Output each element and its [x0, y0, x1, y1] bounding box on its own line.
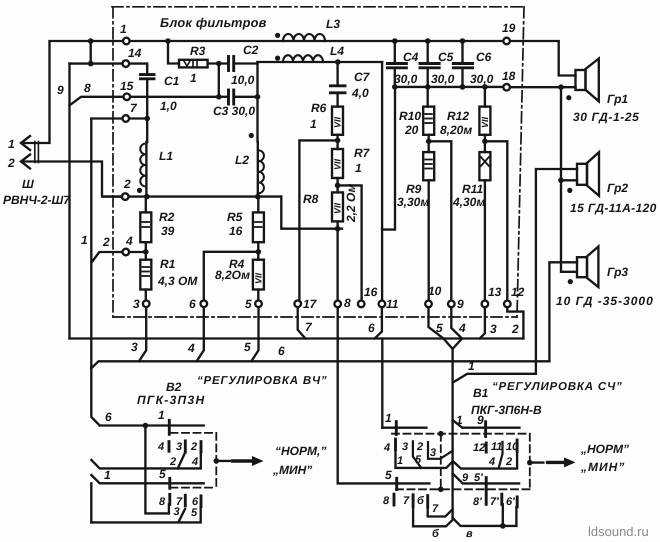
arrow B1 positions — [548, 461, 564, 464]
svg-text:4: 4 — [125, 234, 133, 248]
svg-text:10 ГД -35-3000: 10 ГД -35-3000 — [556, 294, 654, 308]
svg-text:4,3 ОМ: 4,3 ОМ — [157, 274, 198, 288]
wire: central harness vertical — [451, 349, 453, 518]
node: dots B1 link — [438, 431, 444, 437]
node: dot R7/R8 junction, tap right to terminal 16 column — [336, 178, 338, 192]
wire: input 1 net, terminal 1 to L3 to C-tops to terminal 19 to Гр1 top — [22, 41, 123, 143]
node: dot R6/R7 junction — [336, 135, 338, 149]
svg-text:2: 2 — [416, 441, 423, 453]
terminal 3 — [143, 300, 150, 307]
node: dot B2 row1 — [143, 423, 149, 429]
svg-text:L4: L4 — [330, 44, 344, 58]
terminal 4 — [123, 249, 130, 256]
svg-text:39: 39 — [161, 224, 175, 238]
arrow B2 positions — [233, 459, 252, 462]
svg-text:Блок фильтров: Блок фильтров — [160, 15, 267, 30]
svg-text:R11: R11 — [462, 182, 483, 196]
svg-text:5: 5 — [436, 321, 443, 335]
wire: harness funnel to central vertical — [443, 339, 462, 349]
svg-text:16: 16 — [364, 285, 378, 299]
svg-text:8: 8 — [159, 496, 166, 508]
node: dot R10 bottom, tap to terminal 9 column — [428, 135, 430, 152]
wire: terminal 2 / L1-L2 common bus — [104, 195, 122, 197]
svg-text:8,20м: 8,20м — [440, 123, 472, 137]
svg-text:2: 2 — [169, 456, 176, 468]
svg-text:R5: R5 — [227, 210, 243, 224]
svg-text:R9: R9 — [406, 182, 422, 196]
svg-text:1: 1 — [104, 468, 111, 482]
node: dot C3 joins column — [255, 94, 261, 100]
svg-text:8: 8 — [383, 495, 390, 507]
resistor R6 — [336, 93, 338, 107]
wire: B2 left vertical bottom — [90, 483, 92, 522]
svg-text:5': 5' — [474, 472, 483, 484]
svg-text:R12: R12 — [447, 109, 469, 123]
wire: R3 left drop — [168, 41, 179, 64]
svg-text:8: 8 — [344, 296, 351, 310]
wire: drop from terminal-1 wire to terminal-14 wire — [90, 41, 92, 64]
resistor R1 — [140, 260, 151, 290]
wire: L4 right to C7 node and across to terminal 11 column — [283, 61, 323, 63]
wire: B2 left feed vertical with merges — [91, 368, 99, 425]
node: dot R2/R1 junction — [143, 249, 149, 255]
svg-text:1,0: 1,0 — [160, 99, 177, 113]
switch bar B2 pin5 row — [168, 478, 171, 488]
svg-text:1: 1 — [81, 233, 88, 247]
node: dot L1 bottom — [144, 194, 150, 200]
svg-text:2: 2 — [505, 456, 512, 468]
B1 bottom-right row в — [453, 507, 517, 526]
wire: below terminal 5 merge to bus2 — [251, 307, 258, 361]
capacitor C7 — [336, 62, 338, 85]
svg-text:11: 11 — [386, 297, 399, 311]
svg-text:VII: VII — [480, 116, 490, 128]
connector arrow 2 — [21, 155, 30, 169]
wire: L1 junction to R2 — [145, 197, 147, 213]
wire: tap left to terminal 17 column — [299, 140, 337, 300]
wire: terminal 4 line — [92, 252, 123, 262]
terminal 19 — [503, 38, 510, 45]
svg-text:12: 12 — [511, 285, 525, 299]
terminal 1 — [123, 38, 130, 45]
svg-text:3: 3 — [174, 506, 180, 518]
terminal 13 — [482, 301, 489, 308]
connector cable marker bars — [35, 142, 39, 163]
svg-text:2: 2 — [511, 322, 519, 336]
svg-text:9: 9 — [477, 413, 484, 427]
svg-text:5: 5 — [191, 507, 198, 519]
svg-text:C2: C2 — [243, 43, 259, 57]
node: dot L4 out / C7 top — [335, 59, 341, 65]
wire: B1 inner bucket — [428, 507, 453, 517]
B1 bottom-left group bars 8,7,б — [393, 494, 396, 505]
terminal 17 — [294, 300, 301, 307]
svg-text:7: 7 — [432, 503, 439, 515]
svg-text:2,2 Ом: 2,2 Ом — [344, 184, 358, 223]
node: dot R12 bottom, tap to terminal 12 column — [484, 135, 486, 152]
svg-text:б: б — [417, 495, 425, 507]
capacitor C6 — [453, 64, 472, 68]
svg-text:3: 3 — [402, 441, 408, 453]
svg-text:1: 1 — [190, 71, 197, 85]
wire: terminal 14 net, left to x=69.5 vertical, right to C1 — [70, 62, 123, 64]
terminal 12 — [504, 301, 511, 308]
svg-text:30,0: 30,0 — [470, 72, 494, 86]
svg-text:3: 3 — [430, 447, 436, 459]
node: dot R3 out — [216, 61, 222, 67]
resistor R3 — [179, 60, 208, 68]
terminal 11 — [379, 301, 386, 308]
terminal 16 — [358, 301, 365, 308]
svg-text:C3 30,0: C3 30,0 — [213, 104, 255, 118]
svg-text:16: 16 — [229, 224, 243, 238]
wire: terminal 6 column up and over to R5/R4 junction — [204, 252, 258, 300]
wire: below terminal 12 L to bus1 right end — [507, 307, 523, 338]
capacitor C5 — [420, 64, 439, 68]
svg-text:1: 1 — [310, 117, 317, 131]
svg-text:1: 1 — [120, 22, 127, 36]
node: dot on C3 line — [216, 94, 222, 100]
B1 right contact group — [485, 443, 488, 452]
resistor R11 — [479, 152, 490, 180]
wire: C1 bottom to terminal-15 line — [146, 79, 148, 97]
svg-text:R7: R7 — [354, 146, 371, 160]
svg-text:13: 13 — [488, 285, 502, 299]
switch bar B1 pin5 — [395, 478, 398, 489]
terminal 8 — [334, 301, 341, 308]
wire: below terminal 6 merge to bus2 — [197, 307, 204, 361]
svg-text:C4: C4 — [403, 50, 419, 64]
wire: below terminal 3 merge to bus2 — [139, 307, 146, 361]
svg-text:РВНЧ-2-Ш7: РВНЧ-2-Ш7 — [3, 193, 71, 207]
svg-text:8': 8' — [473, 496, 482, 508]
B2 dashed frame — [171, 433, 217, 488]
svg-text:30 ГД-1-25: 30 ГД-1-25 — [573, 110, 639, 124]
terminal 14 — [123, 60, 130, 67]
svg-text:Гр3: Гр3 — [607, 265, 628, 279]
svg-text:VII: VII — [254, 272, 264, 284]
B2 lower group bars 8,7,6 — [168, 494, 171, 504]
svg-text:12: 12 — [473, 442, 485, 454]
svg-text:15 ГД-11А-120: 15 ГД-11А-120 — [570, 201, 657, 215]
inductor L3 — [283, 34, 325, 41]
svg-text:4,30м: 4,30м — [452, 195, 485, 209]
wire: B2 row2 with diagonal to bar 3 and corner to bar 2 — [91, 452, 201, 468]
svg-text:3,30м: 3,30м — [397, 195, 429, 209]
switch bar B2 pin1 — [168, 420, 171, 434]
node: dot Гр1 minus / speaker bus — [558, 84, 564, 90]
wire: Гр2 minus lead — [561, 179, 577, 181]
speaker Гр2 — [577, 164, 587, 185]
wire: B1 row1 left — [382, 427, 426, 429]
node: dots on top bus — [392, 38, 398, 44]
svg-text:9: 9 — [57, 83, 64, 97]
wire: B1 row1 right from central jog — [453, 420, 520, 428]
svg-text:9: 9 — [462, 472, 469, 484]
svg-text:“РЕГУЛИРОВКА ВЧ”: “РЕГУЛИРОВКА ВЧ” — [197, 375, 327, 387]
wire: left vertical (bus to B2 area, label 9) from terminal-14 wire down to bus1 corner — [68, 64, 70, 339]
resistor R7 — [332, 149, 343, 178]
inductor L1 — [145, 142, 147, 197]
svg-text:7': 7' — [490, 496, 499, 508]
svg-text:Гр2: Гр2 — [607, 181, 628, 195]
wire: B1 outer bucket — [413, 506, 453, 526]
svg-text:4: 4 — [157, 441, 164, 453]
terminal 5 — [255, 300, 262, 307]
svg-text:4: 4 — [191, 456, 198, 468]
svg-text:R8: R8 — [303, 192, 319, 206]
svg-text:30,0: 30,0 — [431, 72, 455, 86]
wire: R3 out down to C3 line — [218, 64, 220, 97]
speaker Гр1 — [576, 70, 586, 90]
wire: bottom C bus to terminal 18 — [395, 86, 504, 88]
svg-text:4: 4 — [488, 456, 495, 468]
svg-text:„МИН”: „МИН” — [272, 463, 312, 477]
svg-text:C6: C6 — [476, 50, 492, 64]
inductor L2 — [257, 142, 259, 197]
svg-text:11: 11 — [491, 441, 502, 453]
node: dot R5/R4 junction — [255, 249, 261, 255]
svg-text:1: 1 — [355, 161, 362, 175]
B2 contact group upper: bars 4,3,2 — [168, 442, 171, 452]
wire: B1 right group bottom line — [453, 452, 517, 469]
svg-text:3: 3 — [133, 297, 140, 311]
wire: input 2 to terminal 2 — [22, 162, 122, 197]
wire: L4 left from node column — [258, 61, 284, 63]
connector РВНЧ-2-Ш7 arrow 1 — [21, 136, 30, 150]
svg-text:5: 5 — [159, 467, 166, 481]
capacitor C4 — [387, 64, 406, 68]
node: dots bottom C bus — [392, 84, 398, 90]
svg-text:в: в — [466, 528, 473, 540]
wire: terminal 7 line and long drop to B2 — [91, 117, 122, 119]
node: dot bus at Гр2 — [558, 178, 564, 184]
svg-text:„НОРМ”: „НОРМ” — [580, 442, 629, 456]
svg-text:L2: L2 — [235, 153, 249, 167]
node: dot B2 frame to arrow — [214, 458, 220, 464]
resistor R5 — [253, 212, 264, 242]
svg-text:3: 3 — [176, 441, 182, 453]
svg-text:4: 4 — [187, 341, 195, 355]
svg-text:В2: В2 — [166, 380, 182, 394]
svg-text:б: б — [432, 528, 440, 540]
svg-text:R6: R6 — [311, 101, 327, 115]
svg-text:C7: C7 — [354, 70, 371, 84]
wire: C3 right to node column — [234, 96, 258, 98]
wire: C2/C3/L4 node column down to L2 — [256, 62, 258, 142]
svg-text:20: 20 — [404, 123, 419, 137]
wire: below terminal 8 down to B1 row5 — [338, 307, 430, 483]
decorative stray dots — [137, 33, 573, 284]
resistor R9 — [423, 152, 434, 180]
svg-text:14: 14 — [128, 46, 142, 60]
wire: terminal 15 line with diagonal to left vertical — [70, 97, 124, 106]
svg-text:9: 9 — [457, 297, 464, 311]
wire: Гр3 plus lead down to bus2 right end — [549, 262, 577, 361]
capacitor C3 — [229, 90, 234, 104]
svg-text:1: 1 — [8, 137, 15, 151]
svg-text:7: 7 — [403, 495, 410, 507]
speaker Гр3 — [577, 257, 587, 277]
node: dot x=90.7 on terminal-1 wire — [88, 38, 94, 44]
node: dot L2 bottom — [255, 194, 261, 200]
svg-text:Ш: Ш — [22, 177, 34, 191]
svg-text:4,0: 4,0 — [351, 86, 369, 100]
wire: terminal 11 column from L4 line down to T, right to C-bus column — [382, 62, 395, 230]
wire: below terminal 13 merge — [480, 307, 485, 338]
svg-text:5: 5 — [385, 468, 392, 482]
wire: bus1 to B1 row1 left feed — [381, 339, 383, 428]
resistor R2 — [140, 212, 151, 242]
terminal 2 — [122, 193, 129, 200]
wire: R3 right to C2 — [208, 62, 229, 64]
node: dot C1/L1 column at terminal-7 line — [144, 116, 150, 122]
svg-text:1: 1 — [385, 411, 392, 425]
wire: B2 row1 — [100, 424, 204, 426]
wire: column down to L1 — [146, 97, 148, 142]
terminal 15 — [124, 94, 131, 101]
svg-text:“РЕГУЛИРОВКА СЧ”: “РЕГУЛИРОВКА СЧ” — [492, 381, 623, 393]
svg-text:6: 6 — [278, 344, 285, 358]
terminal 7 — [123, 115, 130, 122]
svg-text:17: 17 — [303, 297, 318, 311]
svg-text:R1: R1 — [160, 257, 176, 271]
wire: C2 right to node column — [234, 62, 258, 64]
svg-text:4: 4 — [458, 321, 466, 335]
terminal 10 — [425, 301, 432, 308]
svg-text:8,2Ом: 8,2Ом — [215, 268, 250, 282]
node: junction dot terminal1 wire / R3 drop — [165, 38, 171, 44]
svg-text:2: 2 — [7, 156, 15, 170]
resistor R4 — [253, 260, 264, 290]
svg-text:6': 6' — [506, 496, 515, 508]
svg-text:10,0: 10,0 — [231, 73, 255, 87]
wire: common bus right end down to R8 bottom line — [281, 197, 342, 229]
svg-text:2: 2 — [102, 235, 110, 249]
B1 dashed frame — [392, 434, 530, 490]
svg-text:4: 4 — [383, 442, 390, 454]
svg-text:L3: L3 — [326, 17, 340, 31]
terminal 6 — [201, 300, 208, 307]
svg-text:6: 6 — [105, 410, 112, 424]
wire: speaker common bus down to Гр3 — [561, 87, 576, 272]
wire: Гр2 plus lead down to B1 merge (label 1) — [453, 169, 577, 382]
capacitor C2 — [229, 57, 234, 71]
B1 left contact group — [394, 439, 397, 449]
svg-text:2: 2 — [123, 177, 131, 191]
svg-text:2: 2 — [190, 441, 197, 453]
wire: below terminal 17 merge to bus1 — [298, 307, 306, 338]
svg-text:19: 19 — [502, 21, 516, 35]
wire: below terminal 9 merge — [451, 307, 462, 338]
wire: bus1 harness — [70, 337, 524, 339]
svg-text:„МИН”: „МИН” — [580, 460, 625, 474]
wire: B2 bottom row — [91, 507, 200, 523]
svg-text:3: 3 — [131, 340, 138, 354]
svg-text:1: 1 — [158, 408, 165, 422]
wire: B1 row 9/5' from central — [453, 473, 519, 483]
node: dot R8 bottom / terminal 8 column — [336, 221, 338, 300]
wire: B2 row5 — [91, 475, 203, 483]
wire: below terminal 11 merge to bus1 (label 6) — [375, 307, 382, 338]
svg-text:3: 3 — [490, 322, 497, 336]
svg-text:C5: C5 — [438, 50, 454, 64]
svg-text:8: 8 — [84, 81, 91, 95]
terminal 9 — [448, 301, 455, 308]
svg-text:ПГК-3П3Н: ПГК-3П3Н — [137, 393, 205, 407]
filter block dash-dot border — [112, 7, 524, 317]
svg-text:В1: В1 — [473, 386, 489, 400]
resistor R8 — [332, 192, 343, 221]
svg-text:5: 5 — [244, 340, 251, 354]
svg-text:6: 6 — [368, 321, 375, 335]
capacitor C1 — [141, 75, 155, 79]
node: dot x=90.7 on terminal-14 wire — [88, 61, 94, 67]
inductor L4 — [283, 55, 323, 62]
wire: bus2 harness — [91, 361, 549, 368]
svg-text:Гр1: Гр1 — [607, 92, 628, 106]
wire: B2 row1 dot down to lower group — [145, 426, 169, 514]
svg-text:VII: VII — [333, 202, 343, 214]
svg-text:5: 5 — [245, 297, 252, 311]
wire: top C bus drops to C4 C5 C6 — [394, 41, 396, 64]
svg-text:C1: C1 — [164, 74, 180, 88]
svg-text:R10: R10 — [399, 109, 421, 123]
resistor R10 — [427, 87, 429, 107]
svg-text:R3: R3 — [190, 44, 206, 58]
svg-text:5: 5 — [415, 454, 422, 466]
svg-text:18: 18 — [502, 69, 516, 83]
svg-text:R2: R2 — [159, 210, 175, 224]
terminal 18 — [503, 84, 510, 91]
svg-text:L1: L1 — [159, 149, 173, 163]
svg-text:1: 1 — [397, 455, 403, 467]
svg-text:6: 6 — [189, 297, 196, 311]
svg-text:10: 10 — [428, 284, 442, 298]
svg-text:VII: VII — [333, 158, 343, 170]
wire: below terminal 10 merge — [429, 307, 444, 338]
svg-text:30,0: 30,0 — [394, 72, 418, 86]
svg-text:1: 1 — [456, 413, 463, 427]
wire: R2 bottom to R1 top — [145, 242, 147, 260]
svg-text:15: 15 — [120, 79, 134, 93]
svg-text:“НОРМ,”: “НОРМ,” — [275, 444, 326, 458]
svg-text:VII: VII — [333, 116, 343, 128]
svg-text:ldsound.ru: ldsound.ru — [588, 524, 649, 539]
resistor R12 — [484, 87, 486, 107]
